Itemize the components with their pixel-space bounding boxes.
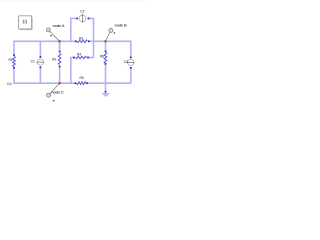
wire: R2 branch vertical [59,41,61,83]
ground [102,91,110,97]
node A junction [58,40,60,42]
svg-text:R6: R6 [100,54,104,58]
wire: R4 right lead [88,57,94,59]
node A marker [46,24,65,41]
svg-text:node B: node B [115,23,128,27]
node C junction [58,82,60,84]
svg-text:C1: C1 [31,60,35,64]
resistor R6 [100,51,107,65]
svg-text:R3: R3 [79,37,83,41]
svg-text:R5: R5 [79,76,83,80]
wire: right vertical branch [130,41,132,85]
svg-text:node A: node A [53,24,65,28]
toolbar button [19,16,33,30]
node B junction [104,40,106,42]
svg-text:R4: R4 [77,53,81,57]
current source C2 [76,10,89,23]
wire: C1 branch vertical [39,41,41,83]
svg-text:0,0: 0,0 [7,82,12,86]
svg-text:R1: R1 [8,58,12,62]
wire: C2 right lead and drop to R4 right corner [88,18,93,57]
svg-text:node C: node C [52,91,65,95]
wire: C2 left lead and drop to top wire [71,18,77,41]
svg-text:C3: C3 [124,60,128,64]
resistor R4 [73,53,89,59]
svg-text:R2: R2 [52,57,56,61]
background [0,0,145,113]
node C marker [47,84,65,102]
resistor R2 [52,51,61,68]
wire: bottom horizontal right segment [87,82,131,84]
wire: bottom horizontal left segment [14,82,76,84]
current source C1 [31,56,45,68]
resistor R5 [75,76,88,84]
node B marker [106,23,127,41]
current source C3 [124,57,135,69]
wire: left vertical branch [13,41,15,85]
wire: top horizontal right segment [89,40,131,42]
svg-text:C2: C2 [80,10,84,14]
wire: top horizontal left segment [14,40,76,42]
wire: R6 branch vertical and ground stub [105,41,107,92]
resistor R1 [8,54,15,69]
resistor R3 [75,37,90,43]
wire: R4 left corner and drop to bottom wire [71,58,74,84]
